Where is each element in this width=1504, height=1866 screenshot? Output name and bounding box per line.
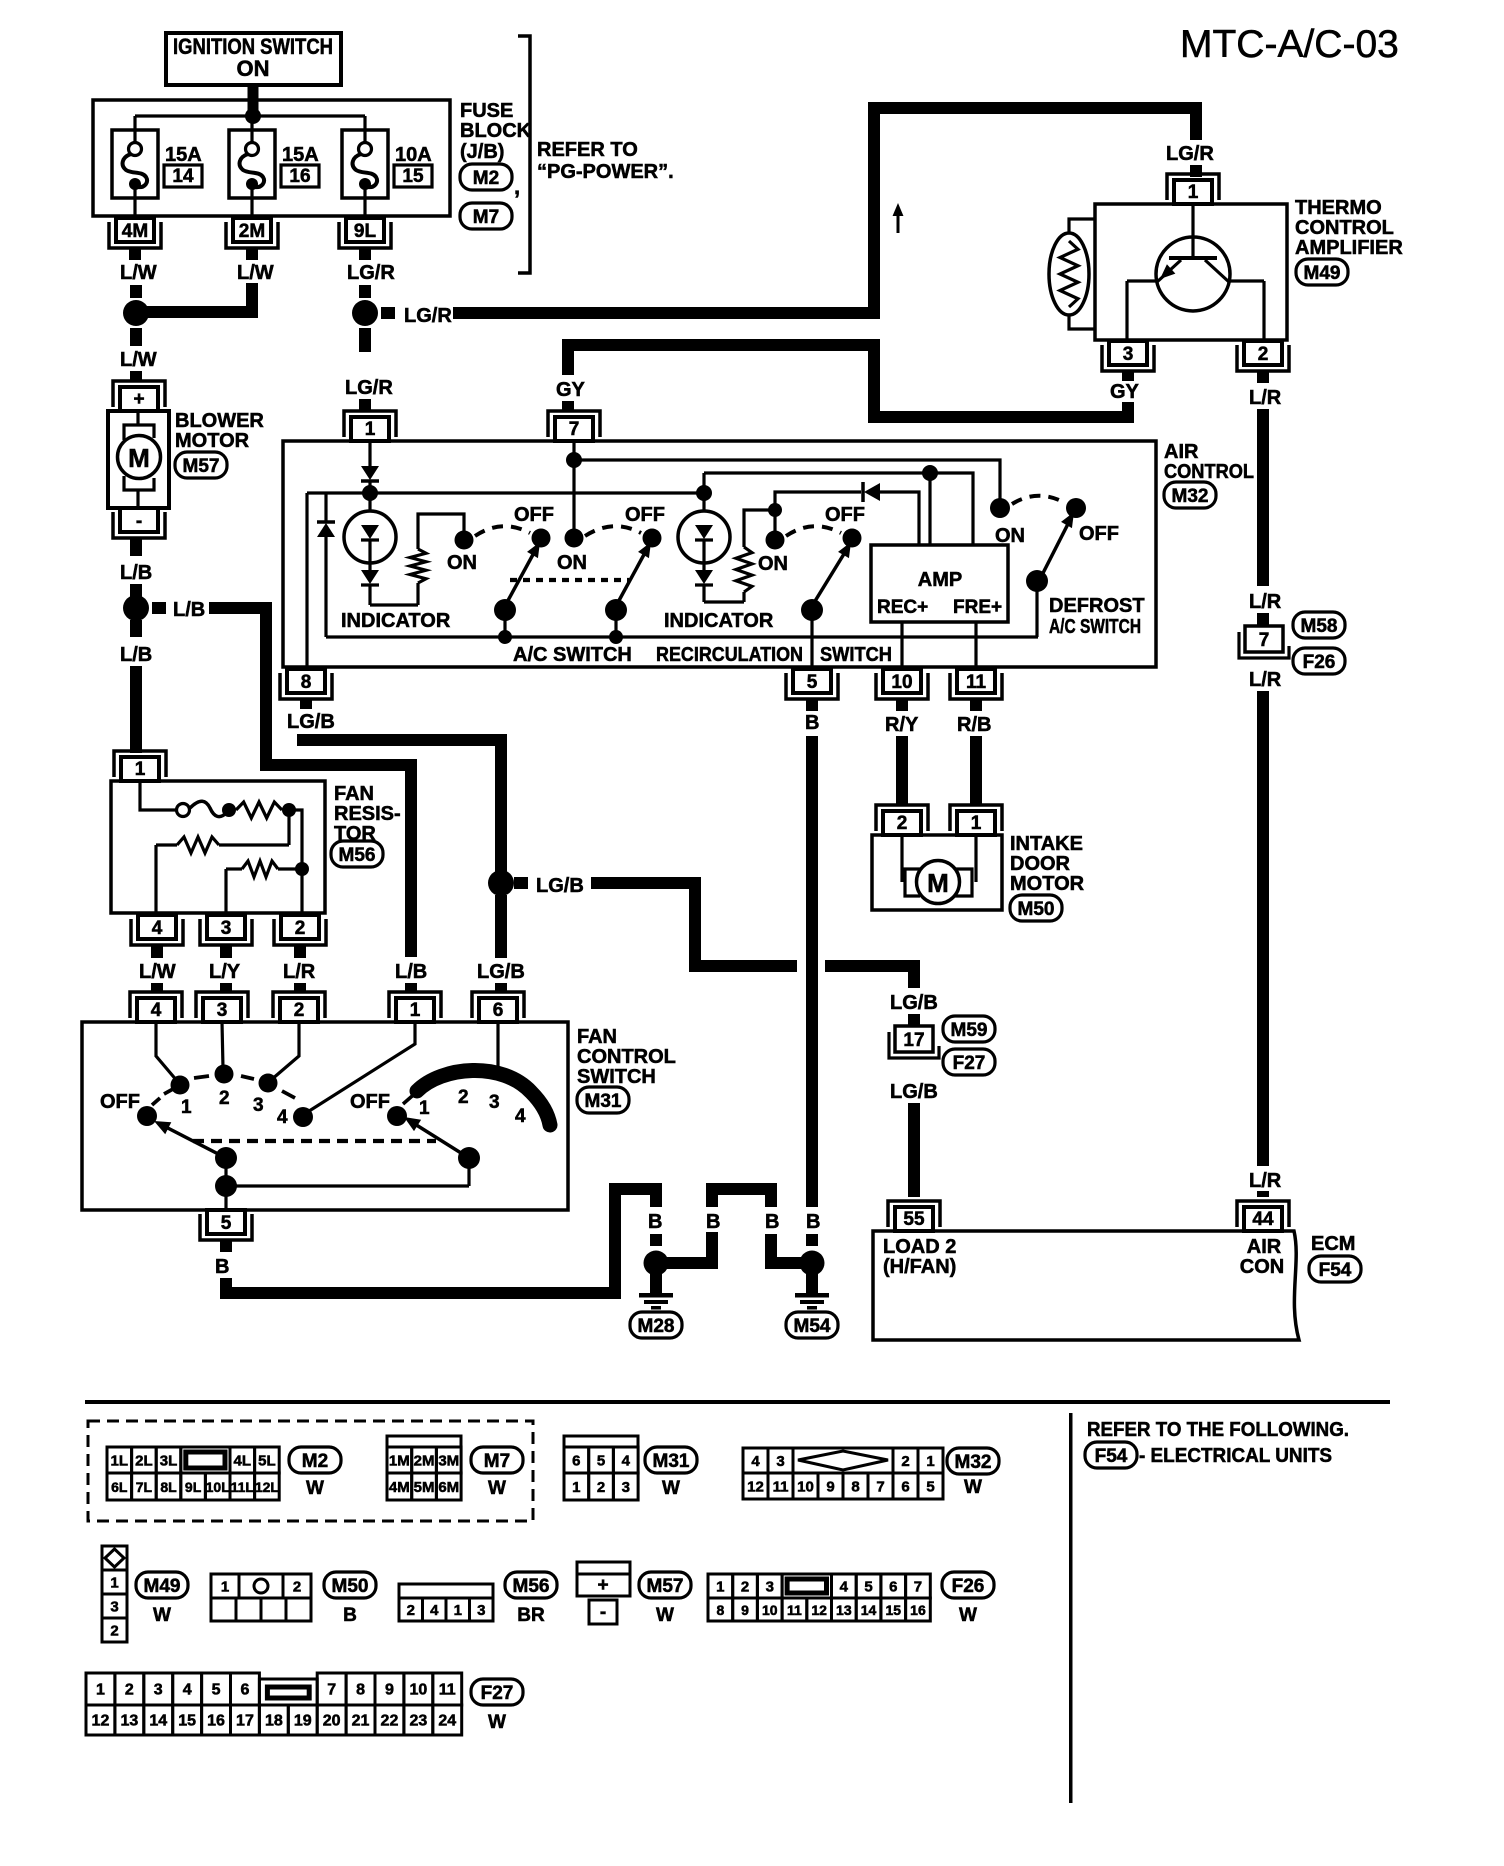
svg-text:M7: M7 (473, 207, 499, 228)
svg-text:10: 10 (797, 1479, 814, 1496)
node fuse bus junction (245, 108, 261, 124)
wire B from fan switch to ground (220, 1278, 232, 1299)
wire L/B branch elbow down (260, 602, 272, 771)
ECM connector pin 55 (895, 1207, 933, 1231)
wire 2M to junction (246, 283, 258, 318)
svg-text:LG/B: LG/B (890, 1081, 938, 1103)
svg-text:L/B: L/B (173, 599, 205, 621)
fan switch speed arc (417, 1070, 550, 1125)
svg-text:CONTROL: CONTROL (577, 1046, 676, 1068)
svg-text:-: - (136, 511, 142, 532)
thermo control amplifier connector pin 1 (1174, 180, 1212, 204)
tag F27 (471, 1679, 523, 1705)
svg-text:(H/FAN): (H/FAN) (883, 1256, 956, 1278)
wire LG/B branch right (514, 877, 528, 889)
connector face M57 (577, 1562, 630, 1596)
ECM box F54 (873, 1231, 1299, 1340)
wire LG/B to ECM pin 55 (908, 1103, 920, 1197)
tag M31 (645, 1447, 697, 1473)
svg-text:1: 1 (221, 1579, 229, 1596)
svg-text:9: 9 (826, 1479, 834, 1496)
air control connector pin 7 (555, 417, 593, 441)
svg-text:5: 5 (221, 1213, 232, 1234)
svg-text:L/Y: L/Y (209, 961, 241, 983)
wire B from recirc pin 5 to ground (806, 736, 818, 1207)
separator line (85, 1400, 1390, 1404)
svg-text:23: 23 (409, 1713, 427, 1730)
svg-text:DOOR: DOOR (1010, 853, 1071, 875)
tag F54 footnote (1085, 1442, 1137, 1468)
svg-text:CONTROL: CONTROL (1295, 217, 1394, 239)
svg-text:LG/B: LG/B (477, 961, 525, 983)
defrost switch ON contact (990, 498, 1010, 518)
svg-text:CONTROL: CONTROL (1164, 461, 1254, 483)
svg-text:INDICATOR: INDICATOR (341, 610, 451, 632)
fan switch contacts right (387, 1106, 407, 1126)
fuse 15A #16 (250, 116, 253, 143)
node L/B junction (123, 595, 149, 621)
svg-text:3: 3 (766, 1579, 774, 1596)
A/C switch ON contact (455, 531, 474, 550)
node L/W junction (123, 300, 149, 326)
svg-text:L/B: L/B (120, 644, 152, 666)
svg-text:8: 8 (301, 672, 312, 693)
connector face F27 (86, 1673, 115, 1705)
svg-text:W: W (306, 1478, 324, 1499)
svg-text:ON: ON (995, 525, 1025, 547)
connector face M2 (107, 1447, 132, 1473)
svg-text:8: 8 (716, 1602, 724, 1618)
wire recirc arm to pin 5 (810, 610, 813, 669)
node LG/R junction (352, 300, 378, 326)
A/C switch arm (505, 549, 536, 606)
svg-text:11: 11 (773, 1479, 789, 1496)
connector tag M49 (1296, 259, 1348, 285)
svg-text:L/R: L/R (1249, 387, 1282, 409)
fan switch connector pin 4 (137, 998, 175, 1022)
svg-text:GY: GY (1110, 381, 1140, 403)
wire LG/R branch right (381, 307, 395, 319)
svg-text:B: B (343, 1605, 357, 1626)
svg-text:12L: 12L (255, 1479, 280, 1495)
intake door motor box M50 (872, 835, 1002, 910)
svg-text:OFF: OFF (100, 1091, 140, 1113)
svg-text:2: 2 (458, 1087, 469, 1108)
page arrow up (897, 210, 900, 233)
svg-text:55: 55 (903, 1209, 925, 1230)
transistor Q thermo amp (1156, 237, 1230, 311)
wire pin 7 to recirc ON (572, 441, 575, 530)
svg-text:1: 1 (181, 1097, 192, 1118)
fuse 15A #14 (133, 116, 136, 143)
svg-text:LG/R: LG/R (347, 262, 395, 284)
diode under pin 1 (368, 441, 371, 466)
wire LG/B from pin 8 (297, 734, 507, 746)
fuse block J/B box (93, 100, 450, 216)
svg-text:8: 8 (356, 1682, 365, 1699)
svg-text:FUSE: FUSE (460, 100, 513, 122)
svg-text:4: 4 (840, 1579, 849, 1596)
wire L/W dash (130, 285, 142, 298)
svg-text:5: 5 (597, 1453, 605, 1470)
svg-text:M56: M56 (513, 1576, 550, 1597)
bracket refer pg-power (518, 36, 530, 273)
connector face M32 (743, 1448, 768, 1473)
svg-text:12: 12 (811, 1602, 827, 1618)
svg-text:L/R: L/R (283, 961, 316, 983)
svg-text:3: 3 (221, 918, 232, 939)
wire to defrost ON (574, 460, 1000, 500)
indicator 1 resistor (370, 603, 418, 606)
svg-text:“PG-POWER”.: “PG-POWER”. (537, 161, 674, 183)
connector 9L (346, 218, 384, 242)
tag M2 (289, 1447, 341, 1473)
svg-text:L/W: L/W (120, 262, 157, 284)
air control box M32 (283, 441, 1156, 667)
svg-text:4: 4 (622, 1453, 631, 1470)
wire L/W to blower (130, 371, 142, 381)
switch 2 ON contact (565, 529, 584, 548)
defrost switch OFF contact (1066, 498, 1086, 518)
svg-text:MOTOR: MOTOR (175, 430, 250, 452)
svg-text:8: 8 (851, 1479, 859, 1496)
fan switch connector pin 5 (224, 1186, 227, 1210)
svg-text:M2: M2 (302, 1451, 328, 1472)
fan switch connector pin 2 (280, 998, 318, 1022)
svg-text:10: 10 (762, 1602, 778, 1618)
wire R/Y to intake motor (896, 736, 908, 805)
svg-text:M32: M32 (955, 1452, 992, 1473)
svg-text:19: 19 (294, 1713, 312, 1730)
svg-text:12: 12 (747, 1479, 764, 1496)
svg-text:2: 2 (597, 1479, 605, 1496)
panel divider (1069, 1413, 1073, 1803)
svg-text:7: 7 (876, 1479, 884, 1496)
svg-text:B: B (805, 712, 819, 734)
recirc switch OFF contact (843, 529, 862, 548)
svg-text:4: 4 (151, 1000, 162, 1021)
svg-text:INTAKE: INTAKE (1010, 833, 1083, 855)
diode to switch bus (324, 493, 327, 521)
svg-text:4L: 4L (234, 1453, 252, 1470)
svg-text:3L: 3L (160, 1453, 178, 1470)
connector 2M (233, 218, 271, 242)
svg-text:L/R: L/R (1249, 669, 1282, 691)
connector tag M58 (1293, 612, 1345, 638)
svg-text:ECM: ECM (1311, 1233, 1355, 1255)
connector 4M (116, 218, 154, 242)
thermistor (1049, 233, 1089, 315)
svg-text:F54: F54 (1095, 1446, 1128, 1467)
wire L/R from thermo pin 2 (1257, 371, 1269, 383)
svg-text:3: 3 (110, 1599, 118, 1616)
svg-text:FAN: FAN (334, 783, 374, 805)
svg-text:OFF: OFF (625, 504, 665, 526)
svg-text:LG/R: LG/R (1166, 143, 1214, 165)
connector tag M50 (1010, 895, 1062, 921)
svg-text:OFF: OFF (825, 504, 865, 526)
svg-text:W: W (959, 1605, 977, 1626)
svg-text:2: 2 (293, 1579, 301, 1596)
blower motor body M57 (108, 411, 169, 508)
svg-text:1: 1 (110, 1575, 118, 1592)
svg-text:OFF: OFF (514, 504, 554, 526)
svg-text:M: M (128, 443, 150, 473)
fan control switch box M31 (82, 1022, 568, 1210)
connector face M50 (211, 1574, 239, 1598)
svg-text:R/B: R/B (957, 714, 991, 736)
svg-text:10L: 10L (206, 1479, 231, 1495)
svg-text:11L: 11L (231, 1479, 255, 1495)
wire L/Y to fan switch (220, 945, 232, 958)
svg-text:M56: M56 (339, 845, 376, 866)
svg-text:9L: 9L (354, 221, 377, 242)
svg-text:AMPLIFIER: AMPLIFIER (1295, 237, 1403, 259)
svg-text:F27: F27 (481, 1683, 514, 1704)
svg-text:7L: 7L (136, 1479, 153, 1495)
svg-text:1: 1 (572, 1479, 580, 1496)
svg-text:3: 3 (776, 1453, 784, 1470)
svg-text:5: 5 (864, 1579, 872, 1596)
switch 2 arm (616, 549, 647, 606)
wire L/B down to fan resistor (130, 620, 142, 637)
fan switch arm link wire (226, 1184, 469, 1187)
svg-text:2: 2 (897, 813, 908, 834)
svg-text:6L: 6L (111, 1479, 128, 1495)
svg-text:14: 14 (861, 1602, 877, 1618)
svg-text:B: B (706, 1211, 720, 1233)
svg-text:10A: 10A (395, 144, 432, 166)
svg-text:R/Y: R/Y (885, 714, 919, 736)
svg-text:W: W (488, 1712, 506, 1733)
svg-text:M57: M57 (183, 456, 220, 477)
svg-text:13: 13 (836, 1602, 852, 1618)
svg-text:+: + (133, 389, 144, 410)
svg-text:ON: ON (557, 552, 587, 574)
svg-text:4: 4 (751, 1453, 760, 1470)
svg-text:M49: M49 (1304, 263, 1341, 284)
svg-text:BR: BR (517, 1605, 545, 1626)
svg-text:2: 2 (110, 1623, 118, 1640)
tag M7 (471, 1447, 523, 1473)
air control connector pin 5 (793, 669, 831, 693)
svg-text:RECIRCULATION: RECIRCULATION (656, 644, 803, 666)
fuse 10A #15 (363, 116, 366, 143)
svg-text:B: B (765, 1211, 779, 1233)
indicator 2 resistor (704, 600, 744, 603)
svg-text:11: 11 (439, 1682, 456, 1699)
diode to amp (775, 492, 861, 510)
svg-text:AMP: AMP (918, 569, 962, 591)
svg-text:1: 1 (1188, 182, 1199, 203)
svg-text:15A: 15A (165, 144, 202, 166)
svg-text:THERMO: THERMO (1295, 197, 1382, 219)
svg-text:6M: 6M (438, 1479, 459, 1496)
svg-text:AIR: AIR (1247, 1236, 1282, 1258)
svg-text:3: 3 (477, 1602, 485, 1619)
ground tag M54 (786, 1312, 838, 1338)
svg-text:18: 18 (265, 1713, 283, 1730)
svg-text:13: 13 (120, 1713, 138, 1730)
svg-text:F26: F26 (952, 1576, 985, 1597)
svg-text:1: 1 (410, 1000, 421, 1021)
svg-text:M31: M31 (653, 1451, 690, 1472)
svg-text:SWITCH: SWITCH (577, 1066, 656, 1088)
svg-text:3: 3 (217, 1000, 228, 1021)
fan switch mech dotted link (193, 1139, 436, 1143)
svg-text:M57: M57 (647, 1576, 684, 1597)
svg-text:4M: 4M (389, 1479, 410, 1496)
blower motor plus terminal (120, 387, 158, 411)
svg-text:M7: M7 (484, 1451, 510, 1472)
svg-text:OFF: OFF (350, 1091, 390, 1113)
svg-text:BLOCK: BLOCK (460, 120, 532, 142)
svg-text:ON: ON (447, 552, 477, 574)
svg-text:L/R: L/R (1249, 591, 1282, 613)
svg-text:15A: 15A (282, 144, 319, 166)
svg-text:FRE+: FRE+ (953, 597, 1002, 618)
svg-text:L/W: L/W (120, 349, 157, 371)
svg-text:2: 2 (1258, 344, 1269, 365)
connector tag M56 (331, 841, 383, 867)
svg-text:20: 20 (323, 1713, 341, 1730)
A/C switch OFF contact (532, 529, 551, 548)
svg-text:15: 15 (178, 1713, 196, 1730)
fan switch arm right (410, 1121, 469, 1158)
air control connector pin 11 (957, 669, 995, 693)
svg-text:17: 17 (903, 1030, 924, 1051)
fan switch dash segments left (152, 1098, 160, 1105)
svg-text:4: 4 (183, 1682, 192, 1699)
svg-text:M54: M54 (794, 1316, 831, 1337)
resistor element 1 (236, 802, 282, 818)
svg-text:10: 10 (891, 672, 912, 693)
svg-text:5L: 5L (258, 1453, 276, 1470)
svg-text:GY: GY (556, 379, 586, 401)
thermal fuse inside fan resistor (140, 781, 176, 810)
svg-text:15: 15 (885, 1602, 901, 1618)
ignition switch box (166, 33, 341, 85)
svg-text:4: 4 (515, 1106, 526, 1127)
wire REC+ to pin 10 (900, 622, 903, 669)
wire L/R to fan switch (294, 945, 306, 958)
svg-text:4: 4 (430, 1602, 439, 1619)
svg-text:RESIS-: RESIS- (334, 803, 401, 825)
tag M32 (947, 1448, 999, 1474)
wire ground link M28-M54 (656, 1257, 718, 1269)
intake door motor connector pin 2 (883, 811, 921, 835)
svg-text:4M: 4M (122, 221, 148, 242)
wire L/B branch right (152, 602, 166, 614)
svg-text:B: B (215, 1256, 229, 1278)
svg-text:2: 2 (295, 918, 306, 939)
svg-text:W: W (964, 1477, 982, 1498)
svg-text:FAN: FAN (577, 1026, 617, 1048)
wire GY vertical to pin 7 (562, 345, 574, 375)
svg-text:M50: M50 (1018, 899, 1055, 920)
svg-text:+: + (597, 1575, 608, 1596)
switch common bus wire (326, 635, 1038, 638)
svg-text:44: 44 (1252, 1209, 1274, 1230)
connector tag M2 (460, 164, 512, 190)
svg-text:BLOWER: BLOWER (175, 410, 264, 432)
connector face M31 (564, 1436, 638, 1447)
svg-text:3: 3 (489, 1092, 500, 1113)
svg-text:L/W: L/W (237, 262, 274, 284)
svg-text:16: 16 (289, 166, 310, 187)
svg-text:W: W (488, 1478, 506, 1499)
ground M28 (644, 1251, 669, 1276)
svg-text:LOAD 2: LOAD 2 (883, 1236, 956, 1258)
tag M57 (639, 1572, 691, 1598)
svg-text:2L: 2L (135, 1453, 153, 1470)
fan resistor box M56 (111, 781, 325, 913)
svg-text:7: 7 (327, 1682, 336, 1699)
connector face M7 (387, 1436, 461, 1447)
svg-text:M58: M58 (1301, 616, 1338, 637)
wire L/B below blower (130, 538, 142, 556)
svg-text:AIR: AIR (1164, 441, 1199, 463)
switch 2 OFF contact (643, 529, 662, 548)
inline connector 17 M59/F27 (895, 1026, 933, 1052)
recirc switch arm (812, 549, 847, 606)
svg-text:14: 14 (149, 1713, 167, 1730)
connector face F26 (708, 1574, 733, 1598)
svg-text:2: 2 (125, 1682, 134, 1699)
connector tag M59 (943, 1016, 995, 1042)
wire L/W dash below junction (130, 328, 142, 346)
svg-text:3: 3 (622, 1479, 630, 1496)
svg-text:7: 7 (569, 419, 580, 440)
svg-text:MOTOR: MOTOR (1010, 873, 1085, 895)
svg-text:1: 1 (926, 1453, 934, 1470)
node resistor2/diode (768, 503, 782, 517)
svg-text:22: 22 (381, 1713, 399, 1730)
svg-text:2M: 2M (414, 1453, 435, 1470)
svg-text:M49: M49 (144, 1576, 181, 1597)
svg-text:F27: F27 (953, 1053, 986, 1074)
blower motor minus terminal (120, 508, 158, 532)
fan switch connector pin 1 (396, 998, 434, 1022)
svg-text:LG/B: LG/B (890, 992, 938, 1014)
svg-text:7: 7 (914, 1579, 922, 1596)
resistor element 3 (242, 861, 278, 877)
AMP box (871, 545, 1008, 622)
svg-text:1: 1 (716, 1579, 724, 1596)
connector tag M57 (175, 452, 227, 478)
svg-text:L/B: L/B (395, 961, 427, 983)
fan switch connector pin 6 (479, 998, 517, 1022)
svg-text:3: 3 (253, 1095, 264, 1116)
svg-text:4: 4 (152, 918, 163, 939)
svg-text:6: 6 (240, 1682, 249, 1699)
svg-text:M2: M2 (473, 168, 499, 189)
svg-text:DEFROST: DEFROST (1049, 595, 1145, 617)
svg-text:3M: 3M (438, 1453, 459, 1470)
svg-text:8L: 8L (160, 1479, 177, 1495)
svg-text:1M: 1M (389, 1453, 410, 1470)
svg-text:11: 11 (966, 672, 987, 693)
indicator 2 LED (702, 473, 705, 493)
wire indicator2 top to amp (704, 473, 973, 545)
thermo control amplifier box M49 (1095, 204, 1287, 340)
connector tag F54 (1309, 1256, 1361, 1282)
tag M49 (136, 1572, 188, 1598)
intake door motor connector pin 1 (957, 811, 995, 835)
air control connector pin 8 (287, 669, 325, 693)
svg-text:9: 9 (385, 1682, 394, 1699)
mech link dotted (510, 578, 629, 582)
